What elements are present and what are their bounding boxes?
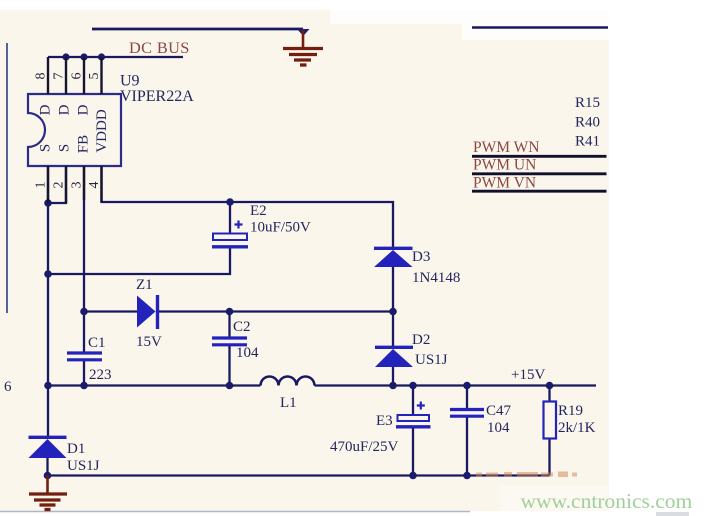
pin 7 stub bbox=[65, 57, 67, 94]
pin 2 stub bbox=[65, 166, 67, 203]
zener Z1 bbox=[137, 295, 158, 329]
wire: pin1 net vertical bbox=[47, 166, 49, 437]
wire: D1 anode lead bbox=[46, 458, 48, 476]
wire: E2 top lead bbox=[229, 202, 231, 234]
diode D1 bbox=[29, 437, 67, 458]
svg-text:www.cntronics.com: www.cntronics.com bbox=[521, 489, 693, 513]
ground (top, DC bus) bbox=[283, 29, 323, 65]
svg-text:D: D bbox=[75, 104, 91, 115]
svg-text:C1: C1 bbox=[88, 335, 106, 351]
wire: E2 bottom return bbox=[48, 248, 230, 274]
svg-text:223: 223 bbox=[89, 367, 112, 383]
diode D3 bbox=[374, 248, 413, 267]
pin 3 stub bbox=[83, 166, 85, 200]
inductor L1 bbox=[261, 377, 315, 386]
svg-text:S: S bbox=[56, 144, 72, 152]
pin 1 stub bbox=[47, 166, 49, 203]
svg-text:R40: R40 bbox=[575, 115, 600, 131]
wire: R19 leads bbox=[548, 386, 550, 403]
svg-text:VIPER22A: VIPER22A bbox=[120, 88, 194, 105]
hidden orange text smudge bbox=[476, 472, 577, 478]
pin 6 stub bbox=[83, 57, 85, 94]
svg-text:U9: U9 bbox=[120, 73, 140, 90]
watermark bbox=[500, 485, 609, 511]
svg-text:D2: D2 bbox=[412, 332, 430, 348]
diode D2 bbox=[375, 347, 413, 367]
capacitor C2 bbox=[212, 338, 247, 345]
svg-text:R19: R19 bbox=[558, 403, 583, 419]
svg-text:C2: C2 bbox=[233, 319, 251, 335]
svg-text:2: 2 bbox=[52, 182, 67, 189]
svg-text:2k/1K: 2k/1K bbox=[558, 420, 596, 436]
wire: D2 anode lead bbox=[392, 367, 394, 386]
ground (bottom) bbox=[29, 476, 67, 510]
svg-text:R15: R15 bbox=[575, 95, 600, 111]
wire: C1 leads bbox=[83, 312, 85, 353]
svg-text:US1J: US1J bbox=[67, 458, 100, 474]
wire: DC BUS net under label bbox=[48, 56, 183, 58]
sheet left border bbox=[6, 43, 8, 313]
svg-text:15V: 15V bbox=[136, 334, 162, 350]
PWM net underlines bbox=[472, 156, 607, 191]
svg-text:1N4148: 1N4148 bbox=[412, 270, 460, 286]
svg-text:D1: D1 bbox=[67, 441, 85, 457]
wire: C47 leads bbox=[466, 386, 468, 410]
svg-text:470uF/25V: 470uF/25V bbox=[330, 439, 399, 455]
resistor R19 bbox=[544, 402, 557, 439]
svg-text:C47: C47 bbox=[486, 403, 512, 419]
svg-text:S: S bbox=[37, 144, 53, 152]
capacitor E3 (electrolytic) bbox=[396, 402, 431, 427]
wire: pin2 jog bbox=[48, 166, 66, 203]
svg-text:R41: R41 bbox=[575, 134, 600, 150]
svg-text:7: 7 bbox=[52, 73, 67, 80]
svg-text:+15V: +15V bbox=[511, 367, 545, 383]
wire: top DC bus line bbox=[92, 28, 303, 31]
wire: C2 leads bbox=[228, 312, 230, 338]
svg-text:3: 3 bbox=[70, 182, 85, 189]
svg-text:D: D bbox=[37, 104, 53, 115]
wire: main +15V row left of L1 bbox=[48, 384, 261, 386]
pin 5 stub bbox=[100, 57, 102, 94]
svg-text:104: 104 bbox=[236, 345, 259, 361]
capacitor C47 bbox=[450, 410, 484, 417]
svg-text:E2: E2 bbox=[250, 203, 267, 219]
wire: pin4 VDD row bbox=[102, 166, 394, 247]
svg-text:6: 6 bbox=[4, 379, 12, 395]
labels: navy bbox=[4, 73, 600, 475]
pin numbers bottom bbox=[34, 182, 103, 189]
sheet bottom border bbox=[0, 511, 470, 513]
svg-text:PWM VN: PWM VN bbox=[473, 175, 536, 192]
wire: E3 leads bbox=[412, 386, 414, 416]
capacitor E2 (electrolytic) bbox=[212, 221, 248, 247]
op IC U9 VIPER22A body bbox=[28, 57, 121, 203]
svg-text:8: 8 bbox=[34, 73, 49, 80]
svg-text:104: 104 bbox=[487, 420, 510, 436]
svg-text:E3: E3 bbox=[376, 413, 393, 429]
labels: maroon nets bbox=[129, 38, 539, 192]
wire: zener row right bbox=[159, 310, 393, 312]
svg-text:PWM UN: PWM UN bbox=[473, 157, 536, 174]
svg-text:VDDD: VDDD bbox=[94, 109, 110, 152]
svg-text:Z1: Z1 bbox=[136, 277, 153, 293]
svg-text:L1: L1 bbox=[280, 395, 297, 411]
svg-text:DC BUS: DC BUS bbox=[129, 38, 190, 57]
wire: pin3 FB vertical bbox=[83, 166, 85, 312]
svg-text:10uF/50V: 10uF/50V bbox=[250, 220, 311, 236]
svg-text:5: 5 bbox=[87, 73, 102, 80]
pin numbers top bbox=[34, 73, 103, 80]
svg-text:FB: FB bbox=[75, 135, 91, 153]
wire: main +15V row right of L1 bbox=[315, 384, 597, 386]
pin names inside IC bbox=[37, 104, 110, 153]
wire: zener row bbox=[84, 310, 137, 312]
svg-text:US1J: US1J bbox=[415, 352, 448, 368]
svg-text:1: 1 bbox=[34, 182, 49, 189]
capacitor C1 bbox=[67, 353, 102, 360]
svg-text:6: 6 bbox=[70, 73, 85, 80]
pin 4 stub bbox=[100, 166, 102, 202]
pin 8 stub bbox=[47, 57, 49, 94]
wire: bottom ground row bbox=[48, 474, 550, 476]
wire: D3-D2 link bbox=[392, 267, 394, 346]
svg-text:PWM WN: PWM WN bbox=[473, 139, 539, 156]
svg-text:D: D bbox=[56, 104, 72, 115]
wire: top-right horizontal line bbox=[472, 26, 608, 29]
svg-text:D3: D3 bbox=[412, 249, 430, 265]
svg-text:4: 4 bbox=[87, 182, 102, 189]
